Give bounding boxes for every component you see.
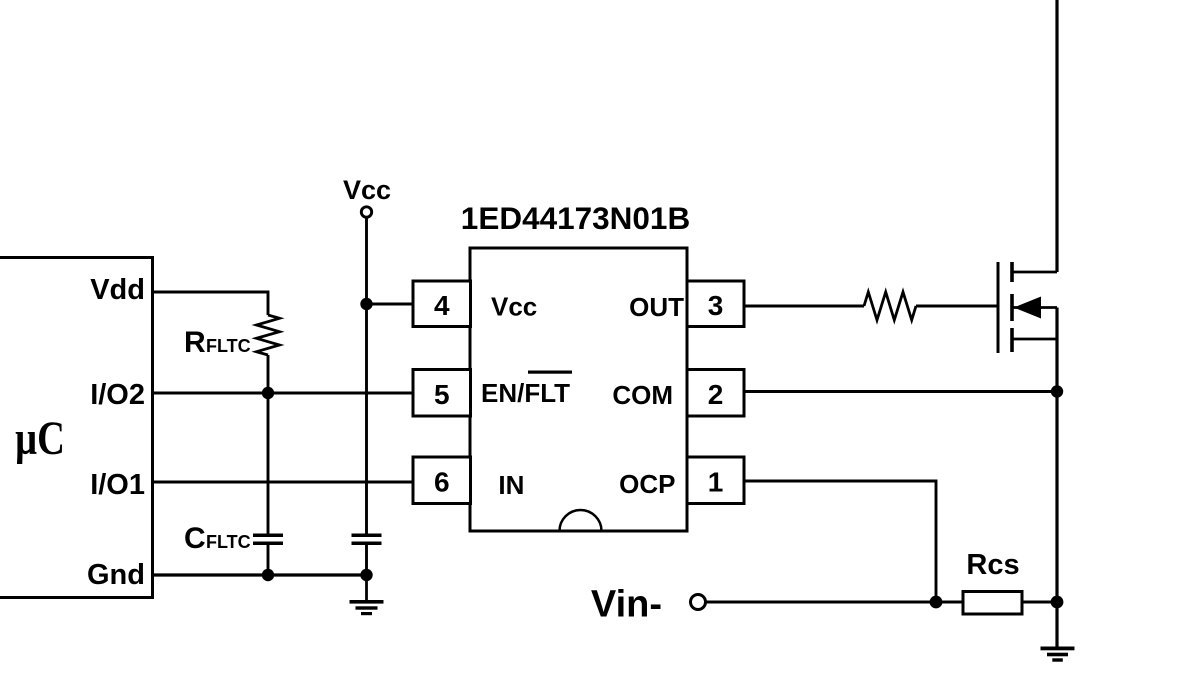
svg-text:Vin-: Vin- [591,584,662,626]
svg-text:Gnd: Gnd [87,559,145,591]
svg-text:µC: µC [15,412,65,465]
svg-text:EN/FLT: EN/FLT [481,378,570,408]
svg-text:Vdd: Vdd [90,274,145,306]
svg-text:OCP: OCP [619,469,675,499]
svg-text:FLTC: FLTC [206,336,251,356]
svg-text:I/O1: I/O1 [90,469,145,501]
svg-text:Vcc: Vcc [343,175,391,205]
svg-text:Vcc: Vcc [491,292,537,322]
svg-text:FLTC: FLTC [206,532,251,552]
svg-text:4: 4 [434,290,450,321]
svg-text:1ED44173N01B: 1ED44173N01B [461,200,690,236]
svg-text:5: 5 [434,379,450,410]
svg-text:I/O2: I/O2 [90,379,145,411]
svg-text:2: 2 [708,379,724,410]
svg-text:R: R [184,326,206,359]
svg-text:6: 6 [434,467,450,498]
svg-text:OUT: OUT [629,292,684,322]
svg-text:COM: COM [612,380,673,410]
svg-text:1: 1 [708,467,724,498]
svg-text:IN: IN [498,470,524,500]
svg-text:C: C [184,522,206,555]
svg-text:Rcs: Rcs [966,549,1019,581]
svg-text:3: 3 [708,290,724,321]
